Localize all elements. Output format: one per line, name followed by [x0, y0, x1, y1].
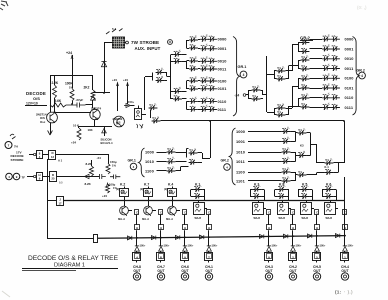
svg-text:C: C	[292, 212, 294, 215]
output box CH-5	[313, 253, 321, 261]
svg-text:4: 4	[243, 73, 245, 77]
svg-text:H: H	[208, 227, 210, 230]
svg-text:1010: 1010	[236, 149, 245, 154]
GR2 L1 upper pair	[277, 68, 286, 73]
GR1 leaf contact 0101	[200, 86, 209, 91]
svg-text:(2): (2)	[116, 188, 119, 191]
box 8/4	[37, 151, 43, 159]
svg-text:1100: 1100	[145, 168, 154, 173]
svg-text:H: H	[292, 227, 294, 230]
connector circle CH-7	[160, 261, 162, 263]
GR2b leaf contact 4	[282, 159, 291, 164]
svg-text:0000: 0000	[345, 37, 354, 42]
wire side chain col 5	[268, 215, 270, 226]
svg-text:· ).): · ).)	[344, 290, 353, 296]
connector circle CH-3	[268, 261, 270, 263]
title underline	[22, 268, 118, 270]
svg-text:0011: 0011	[345, 66, 355, 71]
svg-text:0100: 0100	[345, 76, 354, 81]
svg-text:H: H	[160, 227, 162, 230]
GR1 leaf contact 0001	[200, 46, 209, 51]
svg-text:C: C	[268, 212, 270, 215]
output diode CH-1	[208, 236, 210, 246]
svg-text:100+: 100+	[140, 244, 146, 248]
GR1b leaf contact 1	[167, 149, 176, 154]
contact chain b	[152, 118, 161, 123]
GR2b leaf contact 1	[282, 129, 291, 134]
GR2 leaf contact 0110	[322, 95, 331, 100]
box J/17	[57, 197, 64, 206]
svg-text:K.4: K.4	[325, 165, 330, 169]
svg-text:2.2K: 2.2K	[52, 81, 59, 85]
connector circle CH-1	[208, 261, 210, 263]
box D/12	[49, 151, 56, 160]
svg-text:7F: 7F	[22, 176, 26, 180]
svg-text:0001: 0001	[218, 46, 228, 51]
svg-text:1101: 1101	[236, 178, 246, 183]
svg-text:100+: 100+	[272, 244, 278, 248]
svg-text:2N1760: 2N1760	[113, 117, 123, 121]
svg-text:8.2K: 8.2K	[85, 182, 92, 186]
bus diode col CH-7	[151, 236, 155, 240]
bus diode col CH-3	[259, 234, 263, 238]
osc box right rail	[92, 76, 94, 91]
wire side chain col 3	[184, 215, 186, 226]
driver transistor 3	[168, 206, 177, 215]
side box H col 2	[159, 225, 164, 230]
GR2 bottom brace	[229, 128, 235, 185]
svg-text:10K: 10K	[88, 128, 93, 132]
GR2 root contact pair	[252, 87, 261, 92]
side box C col 4	[207, 210, 211, 215]
relay contacts K.1	[194, 187, 203, 192]
GR1 leaf contact 0110	[200, 99, 209, 104]
svg-text:1100: 1100	[236, 169, 245, 174]
svg-text:1001: 1001	[236, 139, 246, 144]
GR1 leaf contact 0011	[200, 66, 209, 71]
svg-text:100+: 100+	[296, 244, 302, 248]
svg-text:O/S: O/S	[33, 96, 40, 101]
driver transistor 1	[120, 206, 129, 215]
GR2b leaf contact 6	[282, 178, 291, 183]
svg-text:+24: +24	[112, 78, 117, 82]
wire root feed	[145, 76, 153, 78]
svg-text:BO AZ1.4: BO AZ1.4	[101, 141, 114, 145]
side box C col 2	[159, 210, 163, 215]
side box H col 4	[207, 225, 212, 230]
capacitor 2	[110, 175, 120, 179]
svg-text:-24: -24	[97, 156, 102, 160]
strobe tick marks 5 4	[106, 29, 123, 35]
svg-text:GR.2: GR.2	[221, 159, 229, 163]
relay coil K.6	[325, 203, 336, 215]
GR2 interconnects	[286, 70, 293, 72]
svg-text:12V=10: 12V=10	[26, 102, 38, 106]
svg-text:O/S: O/S	[116, 121, 121, 125]
side box H col 3	[183, 225, 188, 230]
GR1b leaf contact 2	[167, 159, 176, 164]
GR2 L1 lower pair	[277, 105, 286, 110]
svg-text:1%: 1%	[69, 85, 74, 89]
svg-text:0101: 0101	[218, 86, 228, 91]
connector J squiggle	[10, 134, 16, 139]
side box H col 1	[135, 225, 140, 230]
GR2b mid contacts	[298, 130, 307, 135]
wire to lower trees	[161, 120, 345, 122]
bus diode col CH-6	[175, 235, 179, 239]
svg-text:H: H	[316, 227, 318, 230]
strobe bus right	[56, 154, 109, 156]
svg-text:+24: +24	[66, 51, 72, 55]
GR2 leaf contact 0000	[322, 37, 331, 42]
relay coil K.5	[301, 203, 312, 215]
transistor Q1 2N2714	[47, 112, 58, 123]
output diode CH-7	[160, 237, 162, 246]
box H/9	[37, 173, 43, 181]
GR2 leaf contact 0001	[322, 46, 331, 51]
GR2 level2 pair 3	[301, 76, 310, 81]
coupling wires multivibrator	[55, 112, 92, 114]
svg-text:STROBE: STROBE	[11, 158, 24, 162]
svg-text:7W STROBE: 7W STROBE	[131, 40, 159, 45]
diode silicon	[104, 127, 106, 136]
output diode CH-6	[184, 236, 186, 246]
GR2b leaf contact 2	[282, 139, 291, 144]
connector circle CH-4	[344, 261, 346, 263]
connector circle 7H	[5, 142, 12, 149]
svg-text:0110: 0110	[218, 99, 227, 104]
output box CH-6	[181, 253, 189, 261]
ground below Q1	[50, 123, 52, 135]
feed wire down to GR1-bottom root	[210, 121, 212, 153]
GR2 leaf contact 0100	[322, 76, 331, 81]
wire chain vertical	[144, 77, 146, 110]
svg-text:6EL.A: 6EL.A	[166, 218, 173, 221]
svg-text:C: C	[184, 212, 186, 215]
svg-text:C: C	[160, 212, 162, 215]
strobe hatched box	[113, 37, 125, 48]
svg-text:1%: 1%	[112, 164, 116, 168]
feed wire down to GR2-bottom root	[344, 121, 346, 163]
wire Q2 to Q3	[94, 120, 96, 128]
svg-text:K.2: K.2	[120, 183, 125, 187]
node dot	[103, 92, 105, 94]
svg-text:D: D	[51, 151, 53, 155]
svg-text:H: H	[136, 227, 138, 230]
svg-text:0101: 0101	[345, 85, 355, 90]
bus diode col CH-5	[307, 234, 311, 238]
GR2 brace	[353, 37, 360, 116]
output box CH-4	[341, 253, 349, 261]
GR1 level2 pair 1	[189, 37, 198, 42]
output box CH-2	[289, 253, 297, 261]
svg-text:WA.R: WA.R	[195, 217, 202, 220]
svg-text:.27µF: .27µF	[76, 98, 84, 102]
-24V coil bus	[64, 200, 345, 202]
strobe terminal circle	[126, 41, 129, 44]
output box CH-3	[265, 253, 273, 261]
scan smudge top-left corner	[0, 1, 8, 10]
side box H col 8	[343, 225, 348, 230]
faint corner mark bottom-left	[2, 291, 10, 297]
svg-text:0100: 0100	[218, 78, 227, 83]
wire side chain col 1	[136, 215, 138, 226]
svg-text:(1:: (1:	[335, 290, 342, 296]
svg-text:-24: -24	[235, 94, 240, 98]
wire strobe box left	[104, 42, 113, 44]
GR1 level2 pair 2	[189, 58, 198, 63]
GR1b leaf contact 3	[167, 168, 176, 173]
svg-text:WA.R: WA.R	[326, 217, 333, 220]
side box C col 7	[315, 210, 319, 215]
svg-text:C: C	[208, 212, 210, 215]
svg-text:C: C	[316, 212, 318, 215]
connector circles 7F	[6, 173, 13, 180]
svg-text:(2): (2)	[164, 188, 167, 191]
connector circle CH-8	[136, 261, 138, 263]
side box H col 6	[291, 225, 296, 230]
wire side chain col 7	[316, 215, 318, 226]
svg-text:150+: 150+	[128, 100, 134, 104]
svg-text:6EL.A: 6EL.A	[118, 218, 125, 221]
svg-text:5.6K: 5.6K	[55, 99, 62, 103]
wire +24 down to 100K	[72, 55, 74, 88]
svg-text:1010: 1010	[145, 159, 154, 164]
relay coil K.3	[253, 203, 264, 215]
svg-text:0.5: 0.5	[59, 181, 63, 185]
main strobe vertical	[47, 159, 49, 239]
svg-text:GR.1: GR.1	[238, 65, 247, 69]
side box C col 5	[267, 210, 271, 215]
GR1 level1 upper pair	[173, 52, 182, 57]
svg-text:+24: +24	[71, 141, 76, 145]
wire side chain col 4	[208, 215, 210, 226]
connector circle CH-2	[292, 261, 294, 263]
output box CH-8	[133, 253, 141, 261]
svg-text:DECODE O/S & RELAY TREE: DECODE O/S & RELAY TREE	[28, 255, 118, 262]
svg-text:DIAGRAM 1: DIAGRAM 1	[54, 262, 85, 268]
svg-text:C: C	[136, 212, 138, 215]
GR1b level2 contacts	[189, 150, 198, 155]
svg-text:Osc: Osc	[40, 120, 46, 124]
wire side chain col 6	[292, 215, 294, 226]
GR2b leaf contact 3	[282, 149, 291, 154]
GR1 level2 pair 3	[189, 78, 198, 83]
svg-text:WA.R: WA.R	[254, 217, 261, 220]
svg-text:4: 4	[361, 74, 363, 78]
output diode CH-2	[292, 235, 294, 246]
contact chain a	[149, 105, 158, 110]
connector circle CH-6	[184, 261, 186, 263]
capacitor pair	[96, 174, 106, 179]
transistor Q2 2N2374	[90, 109, 100, 119]
GR1 bottom brace	[139, 148, 145, 177]
svg-text:0001: 0001	[345, 46, 355, 51]
GR1 leaf contact 0000	[200, 37, 209, 42]
svg-text:AUX. INPUT: AUX. INPUT	[135, 46, 161, 51]
side box C col 3	[183, 210, 187, 215]
svg-text:D: D	[52, 173, 54, 177]
output box CH-1	[205, 253, 213, 261]
side box C col 8	[343, 210, 347, 215]
svg-text:K3: K3	[300, 144, 304, 148]
connector circle CH-5	[316, 261, 318, 263]
GR1 brace	[233, 37, 240, 117]
svg-text:150µ: 150µ	[110, 160, 117, 164]
svg-text:K.4: K.4	[168, 183, 173, 187]
side box H col 5	[267, 225, 272, 230]
diode at osc right	[91, 96, 96, 101]
GR2b leaf contact 5	[282, 169, 291, 174]
output diode CH-4	[344, 235, 346, 246]
transistor Q3 2N1760	[114, 116, 125, 127]
GR1 level2 pair 4	[189, 99, 198, 104]
osc box left rail	[50, 76, 52, 105]
svg-text:17: 17	[59, 201, 62, 205]
relay contacts K.6	[325, 187, 334, 192]
svg-text:0011: 0011	[218, 66, 228, 71]
relay coil output box	[135, 109, 142, 120]
svg-text:10 K: 10 K	[73, 124, 80, 128]
svg-text:5 4: 5 4	[112, 27, 117, 31]
GR2b root contacts	[325, 160, 334, 165]
svg-text:0111: 0111	[218, 107, 227, 112]
svg-text:2K2: 2K2	[84, 86, 90, 90]
svg-text:WA.R: WA.R	[302, 217, 309, 220]
resistor low	[106, 184, 110, 193]
GR1 level1 lower pair	[173, 89, 182, 94]
svg-text:K.7: K.7	[144, 183, 149, 187]
svg-text:0111: 0111	[345, 105, 354, 110]
squiggle (A)	[137, 124, 144, 129]
diode 150ohm	[124, 103, 130, 107]
GR1 leaf contact 0010	[200, 59, 209, 64]
svg-text:100+: 100+	[348, 244, 354, 248]
wire side chain col 2	[160, 215, 162, 226]
svg-text:0000: 0000	[218, 37, 227, 42]
svg-text:WA.R: WA.R	[279, 217, 286, 220]
relay coil K.8	[278, 203, 289, 215]
driver transistor 2	[144, 206, 153, 215]
GR2 leaf contact 0010	[322, 56, 331, 61]
relay contacts K.3	[253, 187, 262, 192]
output diode CH-3	[268, 235, 270, 246]
wire coil to chain	[142, 114, 147, 116]
svg-text:+24: +24	[102, 194, 107, 198]
GR2 level2 pair 1	[301, 40, 310, 45]
svg-text:0010: 0010	[345, 56, 354, 61]
output box CH-7	[157, 253, 165, 261]
osc box top rail	[50, 75, 93, 77]
svg-text:100+: 100+	[212, 244, 218, 248]
strobe feed diode D1	[104, 48, 106, 93]
svg-text:1000: 1000	[145, 149, 154, 154]
svg-text:GR.1: GR.1	[128, 159, 136, 163]
svg-text:0110: 0110	[345, 95, 354, 100]
svg-text:1000: 1000	[236, 129, 245, 134]
svg-text:H: H	[184, 227, 186, 230]
box D/25	[50, 172, 57, 182]
svg-text:A 1: A 1	[58, 159, 63, 163]
svg-text:25: 25	[52, 177, 55, 181]
side box H col 7	[315, 225, 320, 230]
relay contacts K.5	[301, 187, 310, 192]
svg-text:2N2374: 2N2374	[91, 107, 102, 111]
svg-text:0010: 0010	[218, 59, 227, 64]
svg-text:6EL.A: 6EL.A	[142, 218, 149, 221]
svg-text:100+: 100+	[188, 244, 194, 248]
GR1 leaf contact 0100	[200, 78, 209, 83]
GR2 level2 pair 4	[301, 95, 310, 100]
bus diode col CH-4	[335, 234, 339, 238]
GR2 level2 pair 2	[301, 57, 310, 62]
side box C col 1	[135, 210, 139, 215]
GR2 leaf contact 0011	[322, 66, 331, 71]
svg-text:(2): (2)	[140, 188, 143, 191]
strobe return corner	[48, 238, 95, 240]
output diode CH-5	[316, 235, 318, 246]
svg-text:1011: 1011	[236, 159, 246, 164]
output diode CH-8	[136, 237, 138, 246]
svg-text:100+: 100+	[320, 244, 326, 248]
wire side chain col 8	[344, 215, 346, 226]
GR2 leaf contact 0101	[322, 85, 331, 90]
relay coil K.1	[194, 203, 205, 215]
bus diode col CH-8	[127, 236, 131, 240]
svg-text:(0: ,): (0: ,)	[357, 5, 367, 10]
svg-text:H: H	[268, 227, 270, 230]
GR2 leaf contact 0111	[322, 105, 331, 110]
relay contacts K.8	[278, 187, 287, 192]
svg-text:O4: O4	[95, 117, 99, 121]
bus diode col CH-2	[283, 234, 287, 238]
side box C col 6	[291, 210, 295, 215]
svg-text:100+: 100+	[164, 244, 170, 248]
diode	[85, 174, 90, 178]
GR2b root to bus vertical	[344, 177, 346, 201]
GR1 root contact pair	[156, 70, 165, 75]
output bus	[98, 236, 345, 239]
bus diode col CH-1	[199, 235, 203, 239]
GR1 leaf contact 0111	[200, 107, 209, 112]
svg-text:12: 12	[51, 155, 54, 159]
svg-text:7H: 7H	[14, 145, 18, 149]
